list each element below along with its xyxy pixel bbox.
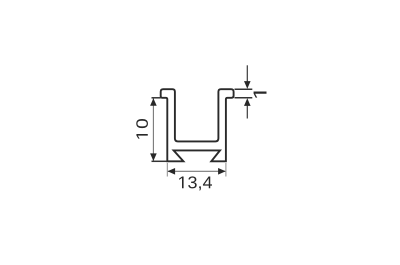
dimension line 1 upper shaft	[246, 65, 248, 81]
arrowhead down (dim 1, above)	[244, 81, 251, 89]
extension line bottom (lip underside extended right, dim 1)	[235, 97, 253, 99]
arrowhead up (dim 10)	[150, 98, 157, 106]
extension line top-left (lip underside extended, dim 10)	[152, 97, 161, 99]
arrowhead up (dim 1, below)	[244, 98, 251, 106]
arrowhead right (dim 13,4)	[218, 168, 226, 175]
dimension line 10 (vertical)	[152, 99, 154, 161]
label 13,4	[179, 176, 212, 190]
arrowhead down (dim 10)	[150, 153, 157, 161]
label 10 (rotated)	[136, 119, 148, 139]
label 1 (rotated)	[254, 91, 267, 97]
extension line top (lip top extended right, dim 1)	[235, 88, 253, 90]
dimension line 1 lower shaft	[246, 105, 248, 119]
extension line bottom-left (profile bottom extended, dim 10)	[152, 160, 168, 162]
extension line bottom-right vertical (dim 13,4)	[225, 163, 227, 177]
dimension line 13,4 (horizontal)	[168, 170, 225, 172]
arrowhead left (dim 13,4)	[168, 168, 176, 175]
profile outline (aluminium channel cross-section)	[161, 89, 234, 161]
extension line bottom-left vertical (dim 13,4)	[166, 163, 168, 177]
